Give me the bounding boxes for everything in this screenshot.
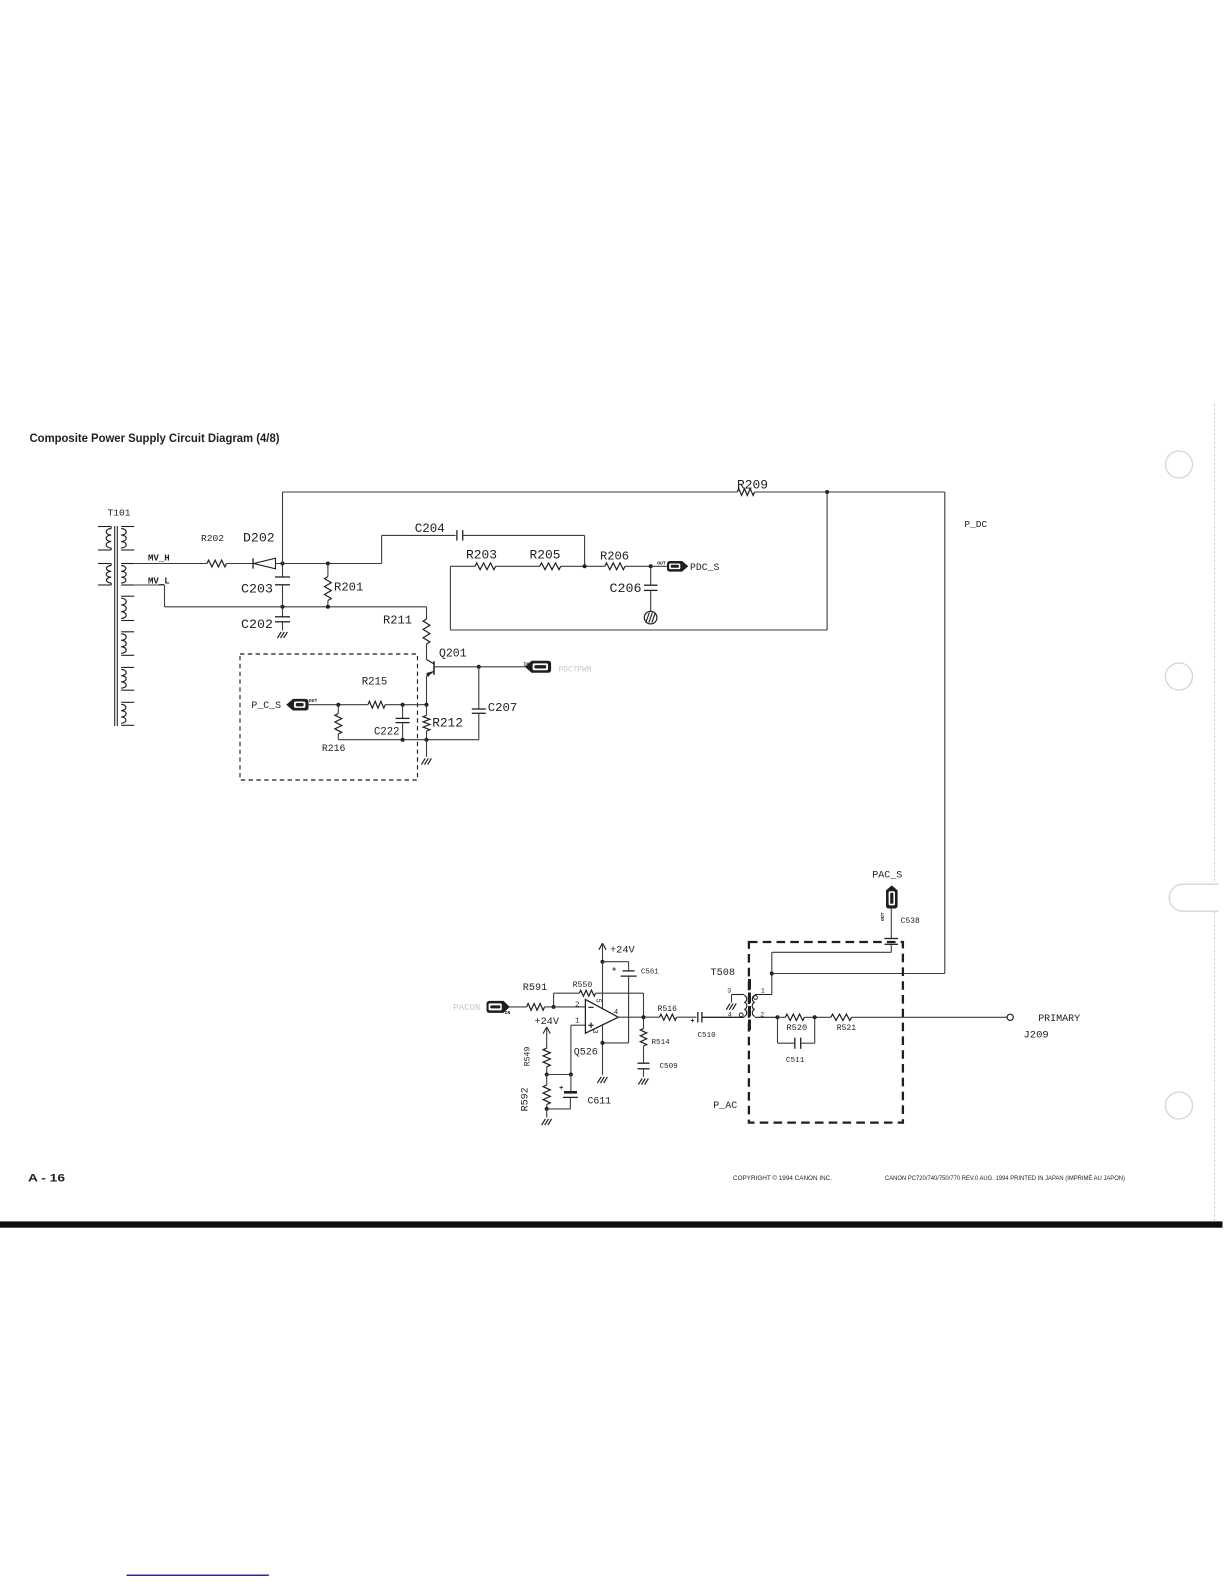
capacitor C204	[456, 530, 458, 541]
svg-text:IN: IN	[505, 1010, 511, 1016]
svg-text:R202: R202	[201, 533, 224, 544]
svg-text:R205: R205	[530, 548, 561, 563]
junction base node	[477, 665, 481, 669]
svg-text:R201: R201	[334, 581, 363, 595]
wire R205 to R206	[561, 565, 605, 567]
transformer T101 left winding 1	[98, 526, 111, 528]
resistor R520	[778, 1016, 786, 1018]
svg-text:C509: C509	[660, 1063, 679, 1071]
wire riser to top rail	[282, 492, 284, 564]
wire to PDCTPWM connector	[479, 666, 526, 668]
wire to C204	[381, 535, 383, 563]
svg-text:OUT: OUT	[880, 912, 886, 921]
junction R216 top	[336, 703, 340, 707]
svg-text:3: 3	[590, 1029, 598, 1033]
resistor R211	[426, 607, 428, 619]
wire to R591	[509, 1006, 527, 1008]
svg-text:C510: C510	[698, 1032, 717, 1040]
svg-text:R212: R212	[432, 716, 463, 731]
capacitor C510 (polarized)	[697, 1012, 699, 1023]
resistor R206	[605, 563, 625, 570]
svg-text:+: +	[690, 1018, 694, 1026]
op-amp input polarity signs	[588, 1006, 593, 1008]
junction R212 bottom	[425, 738, 429, 742]
svg-text:OUT: OUT	[657, 561, 666, 567]
svg-text:C206: C206	[610, 581, 642, 596]
resistor R202	[207, 560, 227, 567]
capacitor C206	[650, 566, 652, 585]
junction C222 bottom	[401, 738, 405, 742]
svg-text:PAC_S: PAC_S	[872, 871, 902, 882]
resistor R550	[579, 990, 595, 996]
dashed box P_AC	[749, 942, 903, 1123]
ground below C509	[638, 1078, 642, 1084]
svg-text:PDC_S: PDC_S	[690, 562, 720, 573]
svg-text:2: 2	[575, 1002, 580, 1010]
junction R549/R592 node	[545, 1073, 549, 1077]
wire node to C204 riser	[328, 563, 382, 565]
wire C561 down to ground rail	[628, 976, 630, 1043]
junction C511 left node	[776, 1015, 780, 1019]
svg-text:PDCTPWM: PDCTPWM	[559, 667, 592, 675]
svg-text:OUT: OUT	[309, 698, 318, 704]
svg-text:PACON: PACON	[453, 1003, 480, 1013]
svg-text:R516: R516	[658, 1005, 678, 1014]
wire Q201 base to C207 node	[434, 666, 479, 668]
resistor R205	[540, 563, 561, 570]
dashed box P_C_S feedback network	[240, 654, 418, 780]
svg-text:P_AC: P_AC	[713, 1101, 737, 1112]
junction C511 right node	[813, 1015, 817, 1019]
svg-text:C538: C538	[901, 917, 920, 926]
svg-text:R550: R550	[573, 981, 593, 990]
ground below C202	[282, 622, 284, 631]
connector IN (PDCTPWM)	[526, 661, 551, 672]
capacitor C207	[478, 667, 480, 709]
junction Q201 emitter node	[425, 703, 429, 707]
svg-text:C511: C511	[786, 1057, 805, 1065]
junction C204 node	[583, 564, 587, 568]
resistor R592	[546, 1075, 548, 1086]
wire P_C_S to R215	[308, 704, 368, 706]
top rail wire left of R209	[283, 491, 738, 493]
punch hole 1	[1166, 451, 1193, 478]
wire R203 row left	[450, 565, 475, 567]
connector IN (PACON)	[487, 1001, 509, 1012]
svg-text:R206: R206	[600, 550, 629, 564]
wire inverting input	[554, 1006, 586, 1008]
wire D202 to node	[276, 563, 328, 565]
wire left drop of sense loop	[449, 566, 451, 630]
svg-text:R209: R209	[737, 477, 768, 492]
svg-text:CANON PC720/740/750/770 REV.: CANON PC720/740/750/770 REV.0 AUG. 1994 …	[885, 1173, 1125, 1182]
wire bottom row of box	[338, 739, 479, 741]
junction output node	[642, 1015, 646, 1019]
svg-text:D202: D202	[243, 531, 275, 546]
svg-text:R591: R591	[523, 983, 547, 994]
svg-text:R521: R521	[837, 1024, 856, 1033]
resistor R521	[831, 1014, 852, 1020]
resistor R216	[337, 705, 339, 714]
connector PAC_S (up)	[887, 886, 898, 908]
svg-text:R520: R520	[787, 1023, 808, 1033]
svg-text:J209: J209	[1024, 1029, 1049, 1041]
svg-text:MV_H: MV_H	[148, 554, 170, 564]
wire feedback riser	[553, 993, 555, 1007]
svg-text:R514: R514	[652, 1039, 671, 1047]
resistor R549	[543, 1048, 550, 1067]
resistor R212	[426, 705, 428, 716]
wire MV_L	[134, 584, 164, 586]
wire MV_H	[134, 563, 207, 565]
svg-text:+: +	[612, 967, 616, 975]
wire op-amp output	[618, 1016, 659, 1018]
wire R591 to node	[545, 1006, 554, 1008]
terminal circle J209	[1007, 1014, 1013, 1020]
ground below op-amp	[597, 1077, 601, 1083]
wire R206 to PDC_S	[625, 565, 667, 567]
junction ground-pin node	[601, 1041, 605, 1045]
wire R520 to R521	[804, 1016, 831, 1018]
ground at T508 pin 3	[731, 995, 733, 1003]
svg-text:P_DC: P_DC	[964, 519, 987, 530]
wire R215 to Q201 column	[385, 704, 426, 706]
svg-text:+: +	[559, 1085, 563, 1093]
junction MV_L / C203	[281, 605, 285, 609]
wire C538 to T508 node	[890, 944, 892, 952]
transformer T101 core	[114, 526, 116, 726]
wire C203 to MV_L rail	[282, 585, 284, 607]
ground below R212	[426, 740, 428, 757]
transformer T101 right winding 6	[121, 701, 134, 703]
junction top rail	[825, 490, 829, 494]
resistor R516	[660, 1014, 677, 1020]
wire C204 to R203 row	[463, 534, 585, 536]
svg-text:C204: C204	[415, 522, 445, 536]
svg-text:3: 3	[727, 988, 731, 995]
wire R203 to R205	[496, 565, 540, 567]
junction MV_L / R201	[326, 605, 330, 609]
wire PAC_S to C538	[890, 908, 892, 939]
capacitor C509	[638, 1062, 650, 1064]
transformer T508 left winding (pins 3-4)	[732, 994, 745, 996]
svg-text:C222: C222	[374, 727, 399, 739]
svg-text:+24V: +24V	[535, 1017, 560, 1028]
capacitor C202	[282, 607, 284, 617]
polarity dot left winding	[739, 1013, 743, 1017]
wire R202 to D202	[227, 563, 254, 565]
junction C611 top node	[569, 1073, 573, 1077]
transformer T101 right winding 4	[121, 631, 134, 633]
junction T508 primary node	[770, 972, 774, 976]
svg-text:+24V: +24V	[610, 945, 636, 957]
resistor R209	[737, 489, 754, 496]
transformer T508 right winding (pins 1-2)	[755, 994, 772, 996]
svg-text:P_C_S: P_C_S	[251, 700, 281, 711]
capacitor C561 (polarized)	[623, 970, 635, 972]
capacitor C222	[402, 705, 404, 719]
connector PDC_S	[668, 562, 688, 572]
blue underline mark bottom left	[127, 1574, 269, 1576]
svg-text:R211: R211	[383, 614, 412, 628]
right edge dotted line	[1214, 404, 1216, 883]
capacitor C203	[282, 564, 284, 578]
thick divider bar	[0, 1221, 1223, 1227]
punch hole 3	[1166, 1092, 1193, 1119]
svg-text:T101: T101	[108, 508, 131, 519]
top rail wire right of R209	[755, 491, 945, 493]
wire node to C611 node	[547, 1074, 571, 1076]
capacitor C611 (polarized)	[570, 1075, 572, 1092]
junction C206 node	[649, 564, 653, 568]
svg-text:PRIMARY: PRIMARY	[1038, 1014, 1080, 1025]
svg-text:5: 5	[593, 999, 601, 1003]
punch notch	[1169, 884, 1218, 911]
wire R516 to C510	[677, 1016, 697, 1018]
resistor R215	[368, 701, 385, 708]
+24V rail through op-amp to ground	[602, 962, 604, 1075]
svg-text:C611: C611	[588, 1096, 612, 1107]
svg-text:R215: R215	[362, 677, 388, 689]
junction +24V node	[601, 960, 605, 964]
svg-text:IN: IN	[523, 662, 529, 668]
svg-text:Q201: Q201	[439, 648, 467, 661]
svg-text:C203: C203	[241, 582, 273, 597]
wire non-inverting input	[571, 1024, 586, 1026]
resistor R203	[475, 563, 496, 570]
wire long vertical to PAC section	[944, 492, 946, 974]
transformer T508 core	[748, 979, 751, 1032]
polarity dot right winding	[754, 996, 758, 1000]
svg-text:2: 2	[760, 1012, 764, 1019]
svg-text:R203: R203	[466, 548, 497, 563]
transformer T101 right winding 5	[121, 666, 134, 668]
svg-text:1: 1	[761, 988, 765, 995]
svg-text:C561: C561	[641, 969, 659, 977]
wire R521 to J209 terminal	[852, 1016, 1008, 1018]
earth ground (circle) below C206	[650, 590, 652, 611]
svg-text:Composite Power Supply Circuit: Composite Power Supply Circuit Diagram (…	[30, 431, 280, 445]
wire sense loop bottom	[450, 629, 827, 631]
junction node at D202 output	[281, 562, 285, 566]
svg-text:COPYRIGHT © 1994 CANON INC.: COPYRIGHT © 1994 CANON INC.	[733, 1174, 832, 1182]
wire from long vertical	[772, 973, 945, 975]
svg-text:Q526: Q526	[574, 1048, 598, 1059]
wire C510 to T508	[702, 1016, 745, 1018]
punch hole 2	[1166, 663, 1193, 690]
connector P_C_S	[287, 699, 308, 710]
svg-text:C207: C207	[488, 701, 518, 715]
resistor R514	[643, 1017, 645, 1028]
svg-text:4: 4	[614, 1009, 619, 1017]
wire sense loop right riser	[826, 492, 828, 630]
junction C222 top	[401, 703, 405, 707]
transformer T101 right winding 1	[121, 526, 134, 528]
diode D202	[252, 558, 254, 568]
svg-text:A - 16: A - 16	[28, 1173, 65, 1185]
transformer T101 right winding 2 (MV_H / MV_L)	[121, 566, 126, 584]
svg-text:4: 4	[728, 1012, 732, 1019]
transformer T101 right winding 3	[121, 595, 134, 597]
svg-text:C202: C202	[241, 617, 273, 632]
resistor R591	[527, 1004, 545, 1011]
svg-text:T508: T508	[711, 968, 735, 979]
capacitor C511 loop	[777, 1017, 779, 1043]
svg-text:R592: R592	[520, 1087, 531, 1111]
wire R550 to output drop	[596, 992, 644, 994]
ground below R592	[546, 1109, 548, 1118]
svg-text:1: 1	[575, 1017, 580, 1025]
capacitor C538	[885, 938, 899, 940]
resistor R201	[327, 564, 329, 577]
transformer T101 left winding 2	[98, 563, 111, 565]
svg-text:R549: R549	[524, 1047, 533, 1067]
junction R592 bottom node	[545, 1107, 549, 1111]
wire +24V to C561	[603, 961, 629, 963]
op-amp Q526 triangle	[585, 999, 618, 1033]
junction inverting input node	[552, 1005, 556, 1009]
svg-text:R216: R216	[322, 743, 346, 754]
